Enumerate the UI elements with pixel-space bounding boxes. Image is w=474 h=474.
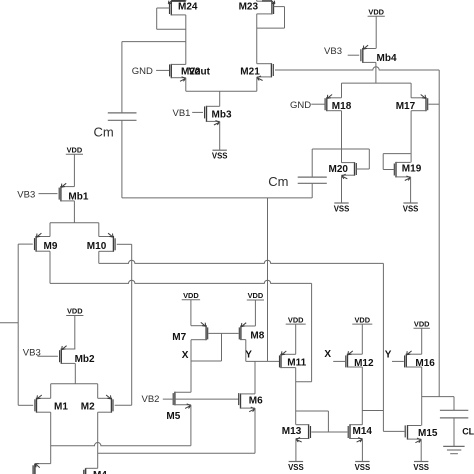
svg-text:VDD: VDD (183, 291, 199, 300)
svg-text:M5: M5 (166, 411, 180, 422)
svg-text:Y: Y (245, 350, 252, 361)
svg-text:GND: GND (290, 100, 311, 111)
svg-text:M1: M1 (54, 402, 68, 413)
svg-text:M24: M24 (178, 2, 198, 13)
svg-text:VSS: VSS (288, 463, 304, 472)
svg-text:M15: M15 (418, 428, 438, 439)
svg-text:Cm: Cm (94, 125, 114, 140)
svg-text:VDD: VDD (368, 8, 384, 17)
svg-text:VB3: VB3 (17, 189, 35, 200)
svg-text:Vout: Vout (189, 67, 211, 78)
svg-text:M18: M18 (332, 101, 352, 112)
svg-text:M23: M23 (239, 2, 259, 13)
svg-text:Mb3: Mb3 (212, 109, 232, 120)
svg-text:M4: M4 (93, 470, 107, 474)
svg-text:CL: CL (462, 427, 474, 437)
svg-text:M11: M11 (287, 358, 306, 369)
svg-text:M2: M2 (81, 402, 95, 413)
svg-text:VDD: VDD (354, 315, 370, 324)
svg-text:M13: M13 (282, 426, 302, 437)
svg-text:X: X (182, 350, 189, 361)
svg-text:VSS: VSS (212, 152, 228, 161)
svg-text:M14: M14 (353, 426, 373, 437)
svg-text:M12: M12 (354, 358, 374, 369)
svg-text:M19: M19 (402, 164, 422, 175)
svg-text:VDD: VDD (248, 291, 264, 300)
svg-text:VSS: VSS (355, 463, 371, 472)
svg-text:M6: M6 (249, 396, 263, 407)
svg-text:M10: M10 (87, 241, 107, 252)
svg-text:M21: M21 (240, 66, 260, 77)
svg-text:M17: M17 (396, 101, 416, 112)
svg-text:VB2: VB2 (142, 394, 160, 405)
svg-text:Y: Y (385, 349, 392, 360)
svg-text:VB1: VB1 (173, 108, 191, 119)
svg-text:X: X (324, 349, 331, 360)
svg-text:M7: M7 (172, 332, 186, 343)
svg-text:VDD: VDD (67, 146, 83, 155)
svg-text:VDD: VDD (67, 307, 83, 316)
svg-text:M16: M16 (415, 358, 435, 369)
svg-text:GND: GND (132, 66, 153, 77)
svg-text:Cm: Cm (268, 174, 288, 189)
svg-text:Mb2: Mb2 (75, 354, 95, 365)
svg-text:VSS: VSS (413, 463, 429, 472)
svg-text:Mb1: Mb1 (68, 192, 88, 203)
svg-text:VDD: VDD (414, 319, 430, 328)
svg-text:VSS: VSS (334, 204, 350, 213)
svg-text:M8: M8 (250, 330, 264, 341)
svg-text:M9: M9 (44, 241, 58, 252)
svg-text:VDD: VDD (288, 315, 304, 324)
svg-text:Mb4: Mb4 (377, 53, 397, 64)
svg-text:M20: M20 (329, 164, 349, 175)
svg-text:VSS: VSS (403, 204, 419, 213)
svg-text:VB3: VB3 (324, 46, 342, 57)
svg-text:VB3: VB3 (23, 347, 41, 358)
